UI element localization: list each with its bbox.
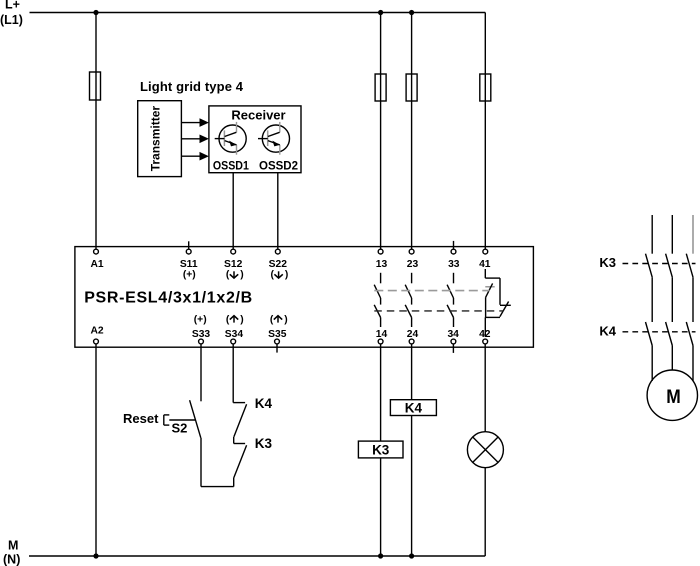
svg-text:): ) [240, 270, 243, 281]
wire S34 down to K4 contact [232, 344, 234, 403]
fuse F2 on 13 feeder [375, 74, 386, 101]
svg-text:34: 34 [447, 329, 459, 340]
svg-text:(: ( [270, 314, 274, 325]
svg-text:24: 24 [407, 329, 419, 340]
wire top supply rail L+ [30, 12, 486, 14]
wire 42 down to lamp [484, 344, 486, 432]
svg-text:(: ( [226, 314, 230, 325]
terminal A2 [91, 326, 104, 344]
svg-text:): ) [240, 314, 243, 325]
terminal S35 with (up arrow) and stub [268, 314, 288, 352]
terminal 33 with stub [448, 241, 460, 270]
svg-text:K4: K4 [255, 396, 273, 411]
terminal 42 [479, 329, 491, 344]
wire below S2 [200, 438, 202, 487]
svg-text:S11: S11 [180, 259, 198, 270]
wire S33 down to reset switch [200, 344, 202, 401]
wire 14 down to K3 coil [380, 344, 382, 441]
light beam arrow 2 [181, 135, 209, 144]
junction dot bottom rail at K4 [409, 553, 414, 558]
wire bottom supply rail M [29, 555, 485, 557]
svg-text:(: ( [270, 270, 274, 281]
svg-text:OSSD1: OSSD1 [213, 161, 250, 173]
svg-text:(+): (+) [183, 270, 196, 281]
svg-text:A2: A2 [91, 326, 104, 337]
wire phase L2 to K3 main contact [671, 215, 673, 254]
node L+ label [0, 0, 23, 27]
fuse F1 on A1 feeder [90, 72, 101, 100]
svg-text:13: 13 [376, 259, 388, 270]
svg-text:OSSD2: OSSD2 [259, 161, 298, 173]
safety contact 23-24 (two NO contacts in series) [405, 273, 411, 327]
light beam arrow 3 [181, 152, 209, 161]
svg-text:Transmitter: Transmitter [149, 106, 163, 172]
wire K4 coil to M rail [411, 416, 413, 557]
svg-text:41: 41 [479, 259, 491, 270]
terminal S34 with (up arrow) [225, 314, 244, 344]
phototransistor OSSD1 [215, 122, 247, 155]
svg-text:14: 14 [376, 329, 388, 340]
contactor coil K3 [358, 441, 403, 458]
terminal 13 [376, 249, 388, 270]
svg-text:K3: K3 [372, 442, 390, 457]
svg-text:S34: S34 [225, 329, 244, 340]
svg-text:K4: K4 [599, 323, 616, 338]
svg-text:33: 33 [448, 259, 460, 270]
svg-text:(: ( [226, 270, 230, 281]
svg-text:S35: S35 [268, 329, 287, 340]
wire feedback loop bottom [201, 486, 234, 488]
safety contact 33-34 (two NO contacts in series) [447, 273, 453, 327]
auxiliary contact 41-42 (two NC contacts) [485, 269, 511, 337]
wire 41 feeder [484, 13, 486, 250]
svg-text:PSR-ESL4/3x1/1x2/B: PSR-ESL4/3x1/1x2/B [84, 290, 252, 307]
light beam arrow 1 [181, 118, 209, 127]
wire 24 down to K4 coil [411, 344, 413, 400]
svg-text:K3: K3 [255, 436, 273, 451]
contactor K4 main contacts (3 poles NO) [646, 322, 694, 346]
svg-text:23: 23 [407, 259, 419, 270]
svg-text:): ) [285, 270, 288, 281]
wire 13 feeder [380, 13, 382, 250]
contactor feedback contact K3 (NC) [234, 444, 247, 487]
terminal S11 with (+) [180, 241, 198, 280]
terminal 14 [376, 329, 388, 344]
svg-text:S33: S33 [192, 329, 211, 340]
terminal 23 [407, 249, 419, 270]
wire K4 to motor (3) [652, 346, 693, 382]
svg-text:): ) [284, 314, 287, 325]
svg-text:S12: S12 [224, 259, 243, 270]
wire OSSD2 to S22 [277, 173, 279, 250]
terminal A1 [91, 249, 104, 270]
junction dot bottom rail at A2 [93, 553, 98, 558]
mechanical linkage dashed line lower [374, 310, 503, 312]
svg-text:Receiver: Receiver [231, 107, 285, 122]
svg-text:Light grid type 4: Light grid type 4 [140, 79, 244, 94]
linkage dashed line K3 [623, 263, 696, 265]
wire phase L1 to K3 main contact [651, 215, 653, 254]
fuse F4 on 41 feeder [480, 74, 491, 101]
relay box PSR-ESL4/3x1/1x2/B [75, 247, 534, 348]
wire K3 to K4 main contacts (3) [652, 277, 693, 322]
contactor K3 main contacts (3 poles NO) [646, 254, 694, 278]
svg-text:(L1): (L1) [0, 13, 23, 27]
junction dot top rail at A1 feeder [93, 10, 98, 15]
contactor coil K4 [390, 400, 436, 416]
svg-text:(N): (N) [3, 553, 20, 566]
junction dot top rail at 13 feeder [378, 10, 383, 15]
svg-text:S2: S2 [172, 421, 188, 436]
contactor feedback contact K4 (NC) [233, 403, 246, 444]
motor M [647, 370, 697, 420]
terminal S12 with (down arrow) [224, 249, 244, 280]
junction dot bottom rail at K3 [378, 553, 383, 558]
junction dot top rail at 23 feeder [409, 10, 414, 15]
svg-text:S22: S22 [269, 259, 288, 270]
phototransistor OSSD2 [258, 122, 290, 155]
wire A1 feeder [95, 13, 97, 250]
svg-text:M: M [8, 539, 18, 553]
svg-text:A1: A1 [91, 259, 104, 270]
terminal S33 with (+) [192, 314, 211, 344]
transmitter box [138, 101, 182, 177]
svg-text:K4: K4 [405, 400, 423, 415]
wire OSSD1 to S12 [232, 173, 234, 250]
mechanical linkage dashed line upper [374, 290, 489, 292]
terminal 24 [407, 329, 419, 344]
receiver box [209, 106, 301, 173]
wire K3 coil to M rail [380, 458, 382, 556]
safety contact 13-14 (two NO contacts in series) [374, 273, 380, 327]
linkage dashed line K4 [623, 331, 696, 333]
wire phase L3 to K3 main contact [692, 215, 694, 254]
svg-text:L+: L+ [5, 0, 20, 12]
indicator lamp [467, 432, 503, 468]
svg-text:Reset: Reset [123, 411, 159, 426]
wire lamp to M rail [484, 468, 486, 556]
terminal 34 with stub [447, 329, 459, 353]
node M label [3, 539, 20, 566]
terminal 41 [479, 249, 491, 270]
fuse F3 on 23 feeder [406, 74, 417, 101]
svg-text:M: M [666, 387, 681, 408]
terminal S22 with (down arrow) [269, 249, 289, 280]
pushbutton S2 (NO, manual actuator) [164, 400, 201, 438]
svg-text:(+): (+) [194, 314, 207, 325]
wire A2 to M rail [95, 344, 97, 556]
svg-text:K3: K3 [599, 255, 616, 270]
wire 23 feeder [411, 13, 413, 250]
